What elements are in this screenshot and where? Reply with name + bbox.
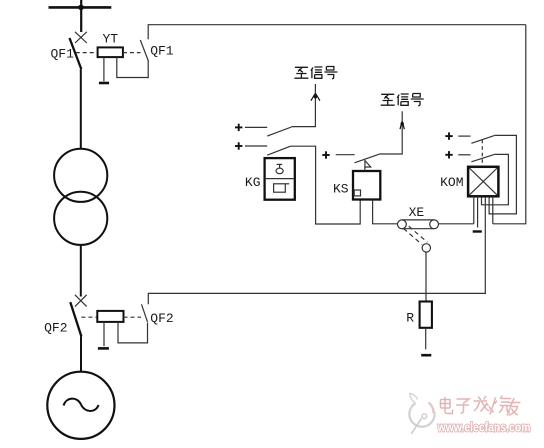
transformer primary	[54, 149, 107, 202]
wire bus stub	[80, 0, 82, 32]
KOM pin2	[477, 196, 479, 227]
wire KOM contact2 loop to pin3	[482, 154, 509, 204]
svg-text:KOM: KOM	[440, 175, 463, 190]
KS tab square	[354, 190, 360, 196]
KG bell symbol	[276, 168, 283, 174]
svg-text:KS: KS	[333, 182, 349, 197]
svg-text:R: R	[406, 311, 414, 326]
wire XE to KOM pin1	[439, 223, 474, 225]
KOM pin6	[492, 196, 494, 224]
wire KS contact left	[336, 154, 355, 156]
relay KOM box	[468, 167, 498, 197]
watermark text dianzifashaoyou	[440, 396, 521, 416]
wire KOM contact1 loop to pin5	[489, 135, 516, 214]
svg-text:www.elecfans.com: www.elecfans.com	[437, 421, 531, 435]
svg-text:QF2: QF2	[150, 311, 173, 326]
KS contact blade	[355, 154, 379, 163]
wire contact1 to arrow	[292, 84, 316, 127]
relay KG box	[265, 158, 295, 200]
wire KOM pin4	[484, 196, 486, 293]
svg-text:QF1: QF1	[150, 44, 174, 59]
svg-text:QF2: QF2	[44, 321, 67, 336]
wire R down	[425, 328, 427, 350]
plus sign KOM contact1	[445, 132, 452, 139]
bus bar	[49, 6, 112, 9]
dashed link QF1 to YT	[76, 52, 98, 54]
wire QF1 aux top to right	[148, 25, 526, 40]
contact1 blade	[267, 127, 291, 136]
coil YT box	[98, 47, 123, 57]
KS triangle flag	[365, 161, 371, 168]
QF2 coil ground bar	[98, 347, 109, 350]
KOM contact1 blade	[471, 136, 494, 144]
wire contact2 left	[245, 145, 267, 147]
breaker QF1 cross	[75, 32, 87, 43]
transformer secondary	[54, 192, 107, 245]
aux contact QF2 blade	[142, 304, 148, 322]
KOM box diagonals	[469, 168, 497, 195]
svg-text:YT: YT	[103, 32, 119, 47]
breaker QF2 blade	[70, 302, 81, 336]
KOM mechanical link dashed	[481, 140, 483, 167]
KOM minus bar	[473, 230, 482, 232]
QF2 coil right pin wire	[118, 322, 148, 343]
YT left pin	[103, 57, 105, 81]
wire QF2 to generator	[80, 337, 82, 372]
wire outer right drop	[493, 25, 526, 224]
resistor R	[420, 302, 432, 328]
wire KOM contact1 left	[458, 135, 470, 137]
KS right pin wire to XE	[373, 200, 398, 224]
plus sign contact1	[235, 124, 242, 131]
wire contact1 left	[245, 126, 267, 128]
QF2 coil left pin	[103, 322, 105, 346]
svg-text:XE: XE	[409, 205, 425, 220]
XE bottom circle	[422, 244, 430, 252]
aux contact QF1 blade	[140, 40, 148, 61]
plus sign contact2	[235, 142, 242, 149]
dashed link YT to QF1 aux	[123, 52, 141, 54]
KG lamp square	[274, 184, 286, 192]
XE capsule bars	[402, 219, 434, 221]
connector XE right circle	[430, 220, 439, 229]
dashed link QF2 to coil	[81, 316, 97, 318]
plus sign KS contact	[322, 151, 329, 158]
coil QF2 box	[97, 311, 123, 322]
wire QF1 to transformer	[80, 69, 82, 149]
relay KS box	[353, 171, 380, 200]
YT ground bar	[99, 82, 109, 85]
KOM contact2 blade	[471, 154, 494, 161]
arrow head 2	[400, 122, 404, 130]
svg-text:QF1: QF1	[51, 47, 75, 62]
wire transformer to QF2	[80, 245, 82, 297]
XE open link dashes	[404, 229, 423, 245]
KG divider	[266, 178, 294, 180]
label to-signal 2	[381, 94, 424, 106]
plus sign KOM contact2	[445, 151, 452, 158]
wire KOM contact2 left	[458, 154, 470, 156]
watermark logo circle	[409, 394, 434, 435]
KS stem	[364, 167, 366, 171]
wire KS contact to arrow	[379, 111, 402, 154]
wire contact2 down to rail	[291, 146, 361, 224]
dashed link coil to QF2 aux	[124, 316, 142, 318]
label to-signal 1	[294, 67, 337, 79]
generator G circle	[47, 372, 114, 439]
arrow head 1	[311, 94, 320, 101]
svg-text:KG: KG	[245, 175, 261, 190]
breaker QF1 blade	[70, 38, 82, 69]
generator sine wave	[64, 399, 99, 411]
R ground bar	[421, 354, 431, 357]
KOM pin1	[473, 196, 475, 224]
wire QF2 aux top rail to KOM pin4	[148, 293, 486, 304]
wire XE to R	[425, 252, 427, 301]
connector XE left circle	[398, 220, 407, 229]
YT right pin wire	[117, 57, 148, 77]
breaker QF2 cross	[75, 295, 87, 307]
contact2 blade	[267, 146, 290, 155]
node junction dot	[78, 5, 84, 11]
